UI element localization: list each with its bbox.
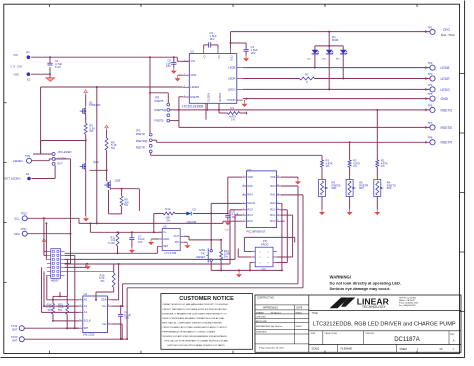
resistor R14 <box>46 296 79 322</box>
customer notice box <box>161 294 253 350</box>
svg-text:12: 12 <box>277 193 279 195</box>
svg-text:R7: R7 <box>305 72 309 76</box>
resistor R6 <box>105 130 117 150</box>
capacitor C1 <box>47 57 62 69</box>
svg-text:RA5: RA5 <box>247 184 253 188</box>
svg-text:A2: A2 <box>84 310 88 314</box>
svg-text:8: 8 <box>108 305 109 307</box>
capacitor C3 <box>244 43 258 56</box>
wire VIN drop to JP2 <box>149 57 151 133</box>
svg-text:4: 4 <box>243 202 244 204</box>
svg-text:CIRCUIT THAT MEETS CUSTOMER-SU: CIRCUIT THAT MEETS CUSTOMER-SUPPLIED SPE… <box>162 308 227 311</box>
svg-text:TP12: TP12 <box>11 324 18 328</box>
svg-text:C+: C+ <box>203 55 207 59</box>
svg-text:GRN: GRN <box>322 58 327 60</box>
svg-text:50K: 50K <box>332 186 337 190</box>
svg-text:RA2: RA2 <box>270 201 276 205</box>
wire E3 to JP1 <box>32 159 71 179</box>
svg-text:2: 2 <box>268 252 269 254</box>
wire LED cathodes <box>314 54 344 91</box>
svg-text:VERIFY PROPER AND RELIABLE OPE: VERIFY PROPER AND RELIABLE OPERATION IN … <box>162 317 225 320</box>
svg-text:D2: D2 <box>193 207 197 211</box>
svg-text:RA1: RA1 <box>270 193 276 197</box>
wire RSETB bus <box>179 126 430 129</box>
svg-text:6: 6 <box>243 214 244 216</box>
wire RC4 left <box>65 215 243 259</box>
wire R14 R15 tops <box>53 292 67 297</box>
wire VDD line <box>154 214 164 233</box>
wire CPO to top bus <box>230 30 430 49</box>
svg-text:CPO: CPO <box>230 55 234 61</box>
resistor R11 <box>108 232 119 253</box>
svg-text:6.3V: 6.3V <box>55 65 61 69</box>
test point TP6 RSETG <box>428 103 453 112</box>
svg-text:Mgr. Maichan: Mgr. Maichan <box>271 325 282 328</box>
svg-text:RA4: RA4 <box>247 193 253 197</box>
svg-text:16V: 16V <box>138 240 143 244</box>
svg-text:3: 3 <box>80 311 81 313</box>
svg-text:1%: 1% <box>381 164 385 168</box>
test point TP12 BAT <box>11 324 24 331</box>
wire VIN branch to JP3 top <box>149 92 168 103</box>
svg-text:CPO: CPO <box>443 28 450 32</box>
wire U3 OUT <box>184 236 211 240</box>
wire GND bus <box>243 97 430 100</box>
test point TP1 CPO <box>428 25 456 37</box>
svg-text:S/W1: S/W1 <box>199 248 206 252</box>
svg-text:RC0: RC0 <box>270 208 276 212</box>
svg-text:SET: SET <box>163 244 169 248</box>
wire VIN rail <box>31 56 189 61</box>
svg-text:RC3: RC3 <box>247 219 253 223</box>
wire RC3 to SCL <box>223 221 242 223</box>
svg-text:6: 6 <box>80 319 81 321</box>
wire DC390 drop <box>70 159 72 235</box>
svg-text:TITLE: TITLE <box>312 313 319 315</box>
svg-text:A1: A1 <box>84 304 88 308</box>
wire header right to gnd <box>65 255 86 328</box>
svg-text:PROG: PROG <box>261 243 269 247</box>
wire LEDB bus <box>243 66 430 69</box>
test point TP9 LEDEN <box>13 154 32 163</box>
wire U4 Vss <box>112 324 124 340</box>
svg-text:Vss: Vss <box>102 322 107 326</box>
svg-text:SDA: SDA <box>14 232 20 236</box>
svg-text:GND: GND <box>441 97 449 101</box>
svg-text:16V: 16V <box>210 37 215 41</box>
wire SCL <box>27 218 223 224</box>
svg-text:EXT LEDEN: EXT LEDEN <box>5 177 21 181</box>
svg-text:RSETR@: RSETR@ <box>136 139 148 143</box>
wire header left column <box>43 217 48 259</box>
wire LEDR bus right <box>315 77 430 80</box>
svg-text:RGB: RGB <box>332 38 338 42</box>
ground at U3 GND <box>148 239 159 245</box>
svg-text:13: 13 <box>277 184 279 186</box>
wire LED feed <box>315 31 343 50</box>
svg-text:VDD: VDD <box>247 175 253 179</box>
wire SET left run <box>65 247 159 255</box>
svg-text:RSETB: RSETB <box>191 95 200 99</box>
svg-text:5: 5 <box>108 298 109 300</box>
svg-text:TP6: TP6 <box>428 103 433 107</box>
svg-text:RSETB: RSETB <box>155 99 164 103</box>
wire PROG pin1 up <box>244 237 294 251</box>
wire TP9 to JP1 <box>32 159 53 161</box>
svg-text:LTC3212EDDB: LTC3212EDDB <box>182 104 204 108</box>
svg-text:16V: 16V <box>251 51 256 55</box>
svg-text:RSETG: RSETG <box>441 108 453 112</box>
svg-text:LEDEN: LEDEN <box>191 85 200 89</box>
wire RC0 loop <box>277 210 288 263</box>
svg-text:VIN: VIN <box>14 54 18 57</box>
op-amp U1 LTC3212EDDB <box>182 49 243 111</box>
wire Q2B drain right <box>110 188 139 211</box>
svg-text:THIS CIRCUIT IS PROPRIETARY TO: THIS CIRCUIT IS PROPRIETARY TO LINEAR TE… <box>164 340 228 343</box>
svg-text:4: 4 <box>184 95 185 97</box>
svg-text:LEDG: LEDG <box>441 88 451 92</box>
wire V+ rail <box>90 231 162 233</box>
svg-text:LEDEN: LEDEN <box>13 159 23 163</box>
resistor R1 <box>227 106 239 122</box>
svg-text:TP5: TP5 <box>428 92 433 96</box>
transistor Q1 <box>80 90 101 116</box>
svg-text:R1: R1 <box>231 106 235 110</box>
test point SCL <box>14 212 27 221</box>
warning text <box>330 274 402 291</box>
svg-text:1: 1 <box>260 252 261 254</box>
test point SDA <box>14 227 27 236</box>
svg-text:LTC3212EDDB, RGB LED DRIVER an: LTC3212EDDB, RGB LED DRIVER and CHARGE P… <box>313 322 456 328</box>
svg-text:TP10: TP10 <box>21 212 28 216</box>
wire SDA <box>27 222 91 262</box>
wire R12 to D2 <box>175 213 186 215</box>
svg-text:VSS: VSS <box>270 175 276 179</box>
svg-text:PIC: PIC <box>201 251 206 255</box>
svg-text:SDA: SDA <box>101 298 107 302</box>
svg-text:HOWEVER, IT REMAINS THE CUSTOM: HOWEVER, IT REMAINS THE CUSTOMER'S RESPO… <box>162 312 227 315</box>
resistor R5 <box>84 114 95 134</box>
svg-text:LEDR: LEDR <box>228 76 235 80</box>
svg-text:2.7V - 5.5V: 2.7V - 5.5V <box>11 66 23 68</box>
svg-text:5%: 5% <box>101 279 105 283</box>
resistor R15 <box>58 296 79 329</box>
svg-text:BAT: BAT <box>13 339 18 343</box>
svg-text:DATE: DATE <box>297 306 303 309</box>
svg-text:WARNING!: WARNING! <box>330 274 352 279</box>
svg-text:SCLK: SCLK <box>84 319 91 323</box>
svg-text:SHEET: SHEET <box>400 349 408 351</box>
svg-text:2: 2 <box>184 74 185 76</box>
transistor Q2A <box>80 160 99 216</box>
svg-text:APPROVALS: APPROVALS <box>263 306 278 309</box>
svg-text:U1: U1 <box>190 49 194 53</box>
svg-text:5.11K: 5.11K <box>108 241 115 245</box>
connector J2 PIC PROG <box>251 239 276 271</box>
svg-text:RSETB: RSETB <box>155 118 164 122</box>
terminal E1 VIN <box>11 50 31 69</box>
svg-text:11: 11 <box>277 202 279 204</box>
svg-text:1%: 1% <box>231 118 236 122</box>
svg-text:Fax: (408)434-0507: Fax: (408)434-0507 <box>399 305 416 307</box>
svg-text:LEDB: LEDB <box>228 66 235 70</box>
svg-text:EXT: EXT <box>58 162 64 166</box>
svg-text:DC1187A: DC1187A <box>394 337 420 343</box>
wire R5 bottom junction <box>41 134 87 161</box>
wire JP2 bottom run <box>151 153 322 160</box>
svg-text:FILENAME:: FILENAME: <box>341 347 353 350</box>
svg-text:CIRCUIT BOARD LAYOUT MAY SIGNI: CIRCUIT BOARD LAYOUT MAY SIGNIFICANTLY A… <box>162 326 227 329</box>
connector JP4 header <box>47 249 65 283</box>
svg-text:24LC025: 24LC025 <box>83 332 95 336</box>
svg-text:BAT: BAT <box>13 328 18 332</box>
svg-text:5%: 5% <box>111 146 116 150</box>
ground at C7 <box>129 248 135 254</box>
svg-text:RSETR: RSETR <box>136 145 145 149</box>
wire RC5 left <box>65 210 243 264</box>
svg-text:PERFORMANCE OR RELIABILITY.: PERFORMANCE OR RELIABILITY. CONTACT LINE… <box>162 331 215 334</box>
op-amp U4 24LC025 <box>79 292 112 337</box>
svg-text:5%: 5% <box>48 308 52 312</box>
svg-text:PIC16F636/ST: PIC16F636/ST <box>246 230 265 234</box>
ground on reset line <box>236 269 242 277</box>
svg-text:HE897: HE897 <box>51 278 59 282</box>
svg-text:MCLR: MCLR <box>247 201 255 205</box>
test point TP5 GND <box>428 92 449 101</box>
wire U4 Vcc to C4 <box>112 305 123 314</box>
wire RSETG bus <box>170 109 430 112</box>
svg-text:TP9: TP9 <box>25 154 30 158</box>
svg-text:TP3: TP3 <box>428 72 433 76</box>
wire PROG pin3 left <box>238 249 251 258</box>
resistor R3 / pot R6 RSETB chain <box>319 159 341 216</box>
resistor R12 <box>163 207 175 223</box>
svg-text:TP2: TP2 <box>428 61 433 65</box>
svg-text:Q2A: Q2A <box>93 160 99 164</box>
svg-text:2: 2 <box>243 184 244 186</box>
transistor Q2B <box>104 179 120 190</box>
svg-text:LEDR: LEDR <box>441 77 451 81</box>
svg-text:RSETR: RSETR <box>218 93 222 102</box>
svg-text:OUT: OUT <box>174 234 180 238</box>
svg-text:TP1: TP1 <box>428 25 433 29</box>
wire header to U4 pins <box>42 267 79 312</box>
ground at C6 <box>225 220 231 232</box>
svg-text:DWG NO: DWG NO <box>366 333 375 335</box>
capacitor C2 <box>204 31 218 49</box>
svg-text:4: 4 <box>268 257 269 259</box>
svg-text:TP11: TP11 <box>21 227 28 231</box>
capacitor C4 <box>118 310 131 340</box>
svg-text:Q2B: Q2B <box>115 179 121 183</box>
ground at C5 <box>171 68 177 74</box>
terminal E2 GND <box>14 72 31 81</box>
svg-text:RESET: RESET <box>197 255 206 259</box>
svg-text:9: 9 <box>277 214 278 216</box>
svg-text:TP13: TP13 <box>11 335 18 339</box>
svg-text:Serious eye damage may occur.: Serious eye damage may occur. <box>330 286 391 291</box>
svg-text:50K: 50K <box>359 186 364 190</box>
svg-text:PIC: PIC <box>263 239 267 243</box>
terminal E3 EXT LEDEN <box>5 172 31 181</box>
svg-text:5%: 5% <box>89 129 94 133</box>
svg-text:SUPPLIED FOR USE WITH LINEAR T: SUPPLIED FOR USE WITH LINEAR TECHNOLOGY … <box>167 344 225 347</box>
title block <box>255 295 461 352</box>
svg-text:6: 6 <box>268 263 269 265</box>
svg-text:RA0: RA0 <box>270 184 276 188</box>
svg-text:E2: E2 <box>27 78 31 82</box>
wire E2 to C1 ground <box>31 67 51 78</box>
svg-text:1: 1 <box>184 60 185 62</box>
svg-text:5%: 5% <box>224 255 228 259</box>
ground at U3 DIV <box>184 242 190 248</box>
svg-text:E3: E3 <box>26 172 30 176</box>
wire D2 right <box>193 213 229 215</box>
svg-text:CAGE CODE: CAGE CODE <box>325 332 338 335</box>
wire RA0 loop <box>122 186 298 307</box>
svg-text:50K: 50K <box>387 186 392 190</box>
wire chain3 feed <box>376 110 378 160</box>
capacitor C7 <box>129 232 145 247</box>
svg-text:TECHNOLOGY APPLICATIONS ENGINE: TECHNOLOGY APPLICATIONS ENGINEERING FOR … <box>162 335 227 338</box>
svg-text:LEDEN: LEDEN <box>63 150 72 154</box>
svg-text:VIN: VIN <box>191 59 195 63</box>
svg-text:RSETR: RSETR <box>136 132 145 136</box>
svg-text:5: 5 <box>243 208 244 210</box>
svg-text:9/28/07: 9/28/07 <box>296 326 302 328</box>
svg-text:RC2: RC2 <box>270 219 276 223</box>
ground at U1 GND pin <box>175 75 183 81</box>
svg-text:GND: GND <box>163 237 169 241</box>
test point TP13 BAT <box>11 335 24 342</box>
svg-text:GND: GND <box>191 73 197 77</box>
svg-text:GND: GND <box>225 230 230 232</box>
wire RC1 loop <box>277 215 293 257</box>
svg-text:10: 10 <box>277 208 279 210</box>
wire SDA to header <box>65 262 71 263</box>
jumper JP1 LEDEN <box>52 150 71 166</box>
svg-text:SIZE: SIZE <box>311 333 316 335</box>
svg-text:TECHNOLOGY: TECHNOLOGY <box>362 305 386 309</box>
svg-text:3: 3 <box>260 257 261 259</box>
ground at C3 <box>243 56 249 62</box>
ground at header <box>85 263 91 269</box>
jumper JP2 RSETR <box>136 129 152 153</box>
svg-text:RC4: RC4 <box>247 213 253 217</box>
svg-text:2: 2 <box>80 305 81 307</box>
resistor R2 / pot R5 RSETR chain <box>346 159 368 216</box>
svg-text:ENGINEERING: ENGINEERING <box>256 326 270 328</box>
wire MCLR to reset <box>211 203 242 213</box>
svg-text:16V: 16V <box>232 215 237 219</box>
svg-text:1%: 1% <box>353 164 357 168</box>
wire LEDG bus <box>243 88 430 91</box>
svg-text:4: 4 <box>108 322 109 324</box>
test point TP7 RSETB <box>428 121 453 130</box>
svg-text:R12: R12 <box>165 207 170 211</box>
svg-text:GND: GND <box>14 73 20 76</box>
resistor R13 <box>220 239 231 272</box>
wire chain2 feed <box>349 142 351 160</box>
svg-text:14: 14 <box>277 176 279 178</box>
svg-text:5: 5 <box>260 263 261 265</box>
svg-text:Friday, September 28, 2007: Friday, September 28, 2007 <box>259 346 285 349</box>
svg-text:7: 7 <box>80 327 81 329</box>
svg-text:RC5: RC5 <box>247 208 253 212</box>
svg-text:C1-: C1- <box>217 55 221 59</box>
svg-text:TP4: TP4 <box>428 83 433 87</box>
svg-text:TP8: TP8 <box>428 136 433 140</box>
svg-text:LEDG: LEDG <box>228 87 236 91</box>
wire RC2 stub <box>281 220 285 222</box>
diode D2 1N4148 <box>186 207 196 224</box>
wire Q2A gate to R6 column <box>90 169 108 171</box>
svg-text:CONTRACT NO.: CONTRACT NO. <box>257 297 275 300</box>
wire RA2 loop <box>281 203 283 271</box>
svg-text:APPLICATION. COMPONENT SUBSTI: APPLICATION. COMPONENT SUBSTITUTION AND … <box>162 321 222 324</box>
svg-text:7: 7 <box>243 220 244 222</box>
wire R6 to Q2B <box>107 150 108 181</box>
wire left loop <box>33 87 52 154</box>
capacitor C5 <box>166 57 176 68</box>
svg-text:WP: WP <box>84 326 89 330</box>
svg-text:RC1: RC1 <box>270 213 276 217</box>
wire BAT1 <box>24 327 79 329</box>
svg-text:DIV: DIV <box>175 240 180 244</box>
svg-text:5%: 5% <box>124 203 128 207</box>
wire RA1 loop <box>126 195 303 340</box>
resistor R7 <box>300 72 315 84</box>
svg-text:3: 3 <box>243 193 244 195</box>
wire R13 top link <box>211 239 221 241</box>
wire PROG pin5 to ground line <box>249 263 251 272</box>
wire VDD up to PIC <box>228 177 242 213</box>
svg-text:Vcc: Vcc <box>102 304 107 308</box>
svg-text:16V: 16V <box>166 64 171 68</box>
svg-text:8: 8 <box>277 220 278 222</box>
wire LEDEN line <box>41 86 183 88</box>
svg-text:Milpitas, CA 95035: Milpitas, CA 95035 <box>399 299 415 302</box>
wire Q2B source loop <box>109 190 122 214</box>
svg-text:RSETR: RSETR <box>441 141 453 145</box>
svg-text:PGND: PGND <box>227 98 235 102</box>
svg-text:DESIGNER: DESIGNER <box>256 332 267 334</box>
svg-text:V+: V+ <box>163 230 167 234</box>
svg-text:CUSTOMER NOTICE: CUSTOMER NOTICE <box>179 296 234 302</box>
wire RSETB pin vertical <box>170 97 183 128</box>
svg-text:LINEAR TECHNOLOGY HAS MADE A B: LINEAR TECHNOLOGY HAS MADE A BEST EFFORT… <box>162 303 228 306</box>
svg-text:1N4148: 1N4148 <box>186 220 196 224</box>
svg-text:3: 3 <box>184 86 185 88</box>
jumper JP3 RSETB <box>155 96 170 123</box>
ground at VSS <box>281 177 301 184</box>
svg-text:1%: 1% <box>326 164 330 168</box>
svg-text:TP0610K: TP0610K <box>89 103 101 107</box>
svg-text:RSETB@: RSETB@ <box>155 108 167 112</box>
svg-text:SCL: SCL <box>14 217 20 221</box>
svg-text:U3: U3 <box>163 224 167 228</box>
svg-text:Do not look directly at operat: Do not look directly at operating LED. <box>330 280 402 285</box>
svg-text:LTC1799: LTC1799 <box>165 251 177 255</box>
svg-text:U5: U5 <box>247 168 251 172</box>
svg-text:1: 1 <box>243 176 244 178</box>
wire LEDR bus left <box>243 78 300 80</box>
svg-text:5%: 5% <box>58 308 62 312</box>
resistor R1b / pot R4 RSETG chain <box>374 159 396 216</box>
resistor R9 <box>120 189 129 214</box>
switch SW1 PIC RESET <box>197 240 213 271</box>
svg-text:REV: REV <box>450 334 455 336</box>
